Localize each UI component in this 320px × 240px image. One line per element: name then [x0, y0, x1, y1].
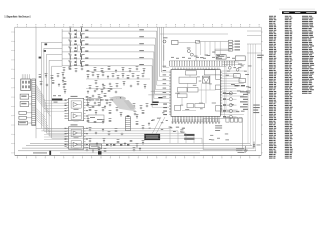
- node LBL2103: [184, 134, 194, 140]
- IC U1: [169, 68, 222, 119]
- capacitor C24: [106, 100, 109, 104]
- node LR101a: [74, 30, 77, 31]
- IC U6: [235, 56, 245, 61]
- node GM1: [98, 151, 102, 154]
- node LROW: [86, 99, 113, 100]
- capacitor C115: [81, 60, 85, 64]
- capacitor C89: [58, 83, 60, 86]
- capacitor C59: [108, 88, 111, 92]
- resistor R614: [62, 72, 65, 77]
- resistor R221: [89, 85, 92, 89]
- capacitor C23: [100, 97, 103, 101]
- transistor Q13: [223, 109, 237, 112]
- wire: [222, 62, 245, 115]
- node LR106a: [74, 64, 77, 65]
- node LR115: [75, 61, 77, 63]
- connector CN15: [65, 101, 67, 119]
- wire: [164, 42, 196, 60]
- connector CN12: [144, 134, 160, 140]
- capacitor C53: [98, 102, 101, 106]
- resistor R612: [136, 66, 139, 70]
- connector CN6: [18, 121, 27, 125]
- capacitor C218: [102, 128, 104, 131]
- wire: [62, 30, 157, 32]
- resistor R65: [87, 70, 90, 71]
- capacitor C52: [92, 106, 95, 107]
- wire: [61, 29, 63, 66]
- resistor R101: [80, 27, 83, 32]
- wire: [62, 37, 155, 39]
- node BLBL: [163, 66, 167, 98]
- node NET101: [139, 29, 144, 30]
- IC U11: [88, 99, 101, 106]
- node MSPECK: [149, 112, 168, 130]
- node ICTXT: [175, 77, 216, 110]
- IC U5: [202, 76, 209, 83]
- resistor R218: [130, 85, 132, 87]
- capacitor C86: [40, 81, 43, 85]
- op-amp U2: [65, 96, 88, 121]
- capacitor C233: [148, 122, 150, 125]
- wire: [52, 66, 62, 138]
- capacitor C22: [94, 102, 96, 104]
- resistor R23: [97, 74, 100, 79]
- capacitor C51: [87, 102, 90, 107]
- parts list: [269, 9, 317, 159]
- capacitor C102: [68, 34, 71, 41]
- capacitor C9: [106, 144, 129, 146]
- capacitor C84: [57, 73, 60, 77]
- node LR103b: [85, 44, 88, 45]
- resistor R106: [80, 61, 83, 66]
- op-amp U3: [65, 124, 88, 149]
- resistor R219: [137, 81, 140, 85]
- capacitor C55: [109, 102, 112, 106]
- IC U1 block 8: [178, 94, 188, 98]
- resistor R62: [69, 66, 72, 70]
- IC U1 block 3: [179, 77, 197, 83]
- crystal X1: [163, 37, 178, 44]
- capacitor C26: [118, 102, 121, 103]
- resistor R610: [122, 67, 125, 72]
- capacitor C28: [95, 110, 98, 115]
- resistor R214: [102, 83, 104, 86]
- wire: [86, 72, 150, 89]
- wire: [225, 44, 256, 151]
- capacitor C31: [163, 104, 167, 116]
- IC U1 block 6: [178, 88, 188, 93]
- capacitor C510: [115, 91, 117, 93]
- resistor R215: [109, 83, 111, 85]
- capacitor C30: [171, 118, 220, 123]
- capacitor C79: [146, 103, 149, 107]
- capacitor C222: [89, 138, 92, 142]
- IC U1 block 2: [204, 70, 215, 75]
- capacitor C85: [63, 77, 66, 78]
- resistor R40: [235, 85, 246, 86]
- node LR104b: [85, 51, 88, 52]
- capacitor C76: [127, 107, 130, 108]
- capacitor C101: [68, 27, 71, 34]
- capacitor C810: [64, 81, 67, 85]
- resistor R223: [103, 85, 106, 89]
- op-amp U1a: [203, 78, 209, 84]
- connector CN1: [21, 74, 31, 90]
- connector CN2: [20, 94, 29, 99]
- capacitor C103: [68, 41, 71, 48]
- capacitor C113: [81, 46, 85, 50]
- resistor R64: [81, 66, 84, 70]
- node LR105a: [74, 58, 77, 59]
- capacitor C711: [127, 115, 130, 116]
- capacitor C21: [89, 97, 92, 101]
- wire: [36, 84, 51, 132]
- resistor R29: [127, 75, 130, 79]
- capacitor C216: [89, 127, 92, 131]
- capacitor C87: [46, 84, 48, 86]
- wire: [160, 33, 228, 35]
- wire: [247, 31, 261, 53]
- capacitor C56: [87, 90, 89, 93]
- capacitor C72: [92, 95, 94, 97]
- resistor R616: [63, 84, 66, 88]
- resistor R617: [64, 89, 67, 94]
- node J3: [39, 57, 42, 59]
- capacitor C221: [121, 133, 123, 135]
- wire: [62, 58, 153, 60]
- resistor R69: [115, 69, 117, 72]
- capacitor C74: [104, 93, 107, 97]
- transistor Q14: [223, 115, 237, 118]
- IC U8: [239, 79, 246, 83]
- connector CN5: [19, 116, 26, 119]
- node LCN10: [53, 95, 61, 102]
- node GM2: [49, 151, 51, 155]
- resistor R611: [129, 68, 132, 72]
- capacitor C231: [136, 121, 139, 125]
- wire: [62, 65, 152, 67]
- transistor Q10: [223, 92, 237, 95]
- resistor R217: [123, 81, 126, 86]
- resistor R220: [144, 84, 147, 89]
- wire: [148, 91, 171, 95]
- capacitor C211: [116, 107, 119, 111]
- resistor R105: [80, 54, 83, 59]
- capacitor C114: [81, 53, 85, 57]
- node J1: [45, 43, 48, 45]
- capacitor C715: [98, 147, 101, 152]
- resistor network RN1: [169, 57, 235, 67]
- connector CN14: [203, 118, 243, 149]
- wire: [62, 44, 155, 46]
- capacitor C718: [139, 147, 141, 150]
- capacitor C112: [81, 39, 85, 43]
- wire: [26, 97, 32, 123]
- wire: [18, 143, 256, 153]
- resistor R104: [80, 47, 83, 52]
- IC U1 block 9: [187, 103, 193, 107]
- transistor Q4: [228, 66, 231, 69]
- capacitor C104: [68, 48, 71, 55]
- connector CN3: [20, 102, 29, 107]
- capacitor C40: [226, 118, 242, 123]
- connector CN11: [125, 117, 130, 131]
- capacitor C82: [45, 73, 48, 78]
- IC U1 block 1: [185, 71, 196, 75]
- capacitor C106: [68, 61, 71, 68]
- node J2: [44, 50, 46, 52]
- transistor Q11: [223, 98, 237, 101]
- capacitor C716: [104, 148, 107, 152]
- capacitor C710: [120, 112, 123, 117]
- capacitor C229: [136, 114, 139, 119]
- resistor R22: [92, 72, 95, 76]
- capacitor C105: [68, 55, 71, 62]
- node TXT2: [236, 148, 244, 153]
- capacitor C217: [95, 132, 97, 134]
- node Z6SPECK: [169, 127, 185, 133]
- node NET106: [139, 64, 144, 65]
- resistor R24: [102, 72, 105, 76]
- resistor R61: [63, 67, 66, 71]
- node NET102: [139, 36, 144, 37]
- capacitor C77: [133, 103, 136, 107]
- transformer T1: [111, 96, 126, 100]
- capacitor C230: [142, 110, 145, 114]
- resistor R28: [122, 73, 125, 78]
- capacitor C75: [120, 104, 123, 108]
- node LR114: [75, 54, 77, 56]
- resistor R212: [142, 73, 145, 77]
- svg-text:5.1 Diagram Matrix - Main Sh: 5.1 Diagram Matrix - Main Sheet part 1: [5, 15, 31, 19]
- capacitor C212: [87, 118, 90, 122]
- wire: [215, 49, 231, 54]
- resistor R222: [96, 86, 99, 90]
- resistor R224: [110, 86, 113, 90]
- node LR104a: [74, 51, 77, 52]
- connector CN4: [19, 111, 26, 114]
- capacitor C232: [142, 125, 145, 129]
- capacitor C25: [112, 97, 115, 101]
- IC U1 block 11: [174, 106, 180, 111]
- IC U7: [234, 74, 241, 78]
- resistor R102: [80, 33, 83, 38]
- resistor R68: [108, 66, 111, 70]
- IC U1 block 12: [216, 106, 222, 111]
- capacitor C71: [86, 96, 89, 97]
- node LR102a: [74, 37, 77, 38]
- node LR113: [75, 47, 77, 49]
- resistor R63: [75, 68, 78, 72]
- capacitor C29: [102, 107, 105, 111]
- resistor R103: [80, 40, 83, 45]
- wire: [62, 51, 154, 53]
- capacitor C713: [86, 147, 89, 151]
- ground: [244, 146, 248, 152]
- connector CN10: [52, 99, 63, 101]
- node TXT1: [151, 97, 163, 105]
- capacitor C58: [101, 89, 104, 94]
- node NET-R: [240, 91, 248, 110]
- resistor R211: [137, 75, 140, 79]
- node NET103: [139, 43, 144, 44]
- resistor R27: [117, 75, 120, 79]
- wire: [49, 60, 62, 136]
- IC U10: [88, 115, 104, 123]
- capacitor C235: [142, 140, 145, 145]
- IC U9: [89, 144, 101, 149]
- wire: [41, 42, 62, 128]
- capacitor C78: [140, 105, 143, 109]
- transistor Q3: [190, 53, 197, 57]
- IC U4: [216, 55, 226, 59]
- connector CN8: [32, 79, 36, 126]
- capacitor C81: [39, 74, 42, 78]
- wire: [35, 27, 37, 138]
- resistor R613: [143, 68, 146, 73]
- capacitor C54: [104, 105, 106, 108]
- connector CN16: [65, 129, 67, 147]
- resistor R210: [132, 73, 135, 77]
- resistor R21: [87, 74, 90, 79]
- capacitor C223: [96, 142, 98, 145]
- capacitor C111: [81, 32, 85, 36]
- IC U1 block 7: [188, 88, 198, 93]
- resistor R615: [62, 79, 64, 82]
- node LR101b: [85, 30, 88, 31]
- wire: [36, 129, 202, 144]
- node NET104: [139, 50, 144, 51]
- capacitor C215: [109, 118, 112, 122]
- capacitor C73: [98, 94, 101, 98]
- wire: [44, 48, 62, 131]
- wire: [201, 42, 221, 56]
- capacitor C234: [136, 143, 139, 148]
- node Z2SPECK: [200, 52, 225, 59]
- diode D1: [253, 142, 261, 149]
- wire: [77, 31, 78, 66]
- capacitor C226: [117, 139, 120, 143]
- node RSPECK: [225, 64, 250, 112]
- capacitor C27: [89, 107, 92, 111]
- transistor Q12: [223, 104, 237, 107]
- capacitor C88: [52, 80, 55, 84]
- capacitor C228: [130, 140, 133, 141]
- capacitor C83: [51, 75, 54, 79]
- connector CN13: [229, 40, 241, 51]
- node RSPECK2: [233, 65, 251, 87]
- capacitor C214: [102, 119, 105, 124]
- node LBL-BOT: [33, 152, 47, 153]
- node LR105b: [85, 58, 88, 59]
- resistor R213: [95, 80, 98, 84]
- node NET-B: [253, 105, 260, 114]
- wire: [47, 54, 63, 133]
- resistor R67: [101, 68, 104, 72]
- IC U1 block 5: [216, 85, 221, 90]
- node LR103a: [74, 44, 77, 45]
- resistor R216: [116, 83, 119, 87]
- wire: [152, 117, 165, 134]
- resistor R26: [112, 73, 115, 77]
- node LR112: [75, 40, 77, 42]
- capacitor C220: [115, 128, 118, 132]
- capacitor C219: [108, 131, 111, 135]
- IC U1 block 4: [216, 75, 221, 79]
- transistor Q2: [187, 48, 191, 53]
- node LR102b: [85, 37, 88, 38]
- capacitor C57: [94, 90, 96, 92]
- capacitor C227: [124, 142, 126, 145]
- capacitor C714: [92, 149, 94, 152]
- capacitor C717: [133, 147, 136, 151]
- node LBL-B: [257, 55, 264, 58]
- capacitor C210: [109, 110, 112, 114]
- wire: [196, 40, 229, 43]
- capacitor C224: [103, 138, 106, 143]
- transistor Q5: [236, 68, 239, 71]
- wire: [44, 100, 67, 139]
- node NET105: [139, 57, 144, 58]
- capacitor C712: [134, 111, 137, 115]
- IC U1 block 10: [195, 103, 205, 107]
- wire: [152, 27, 169, 107]
- node LR106b: [85, 64, 88, 65]
- resistor R66: [94, 67, 97, 71]
- resistor R25: [107, 75, 109, 78]
- capacitor C225: [110, 143, 112, 146]
- node SHADE2: [109, 97, 137, 112]
- node LR111: [75, 33, 77, 35]
- capacitor C213: [94, 121, 97, 122]
- wire: [182, 75, 216, 111]
